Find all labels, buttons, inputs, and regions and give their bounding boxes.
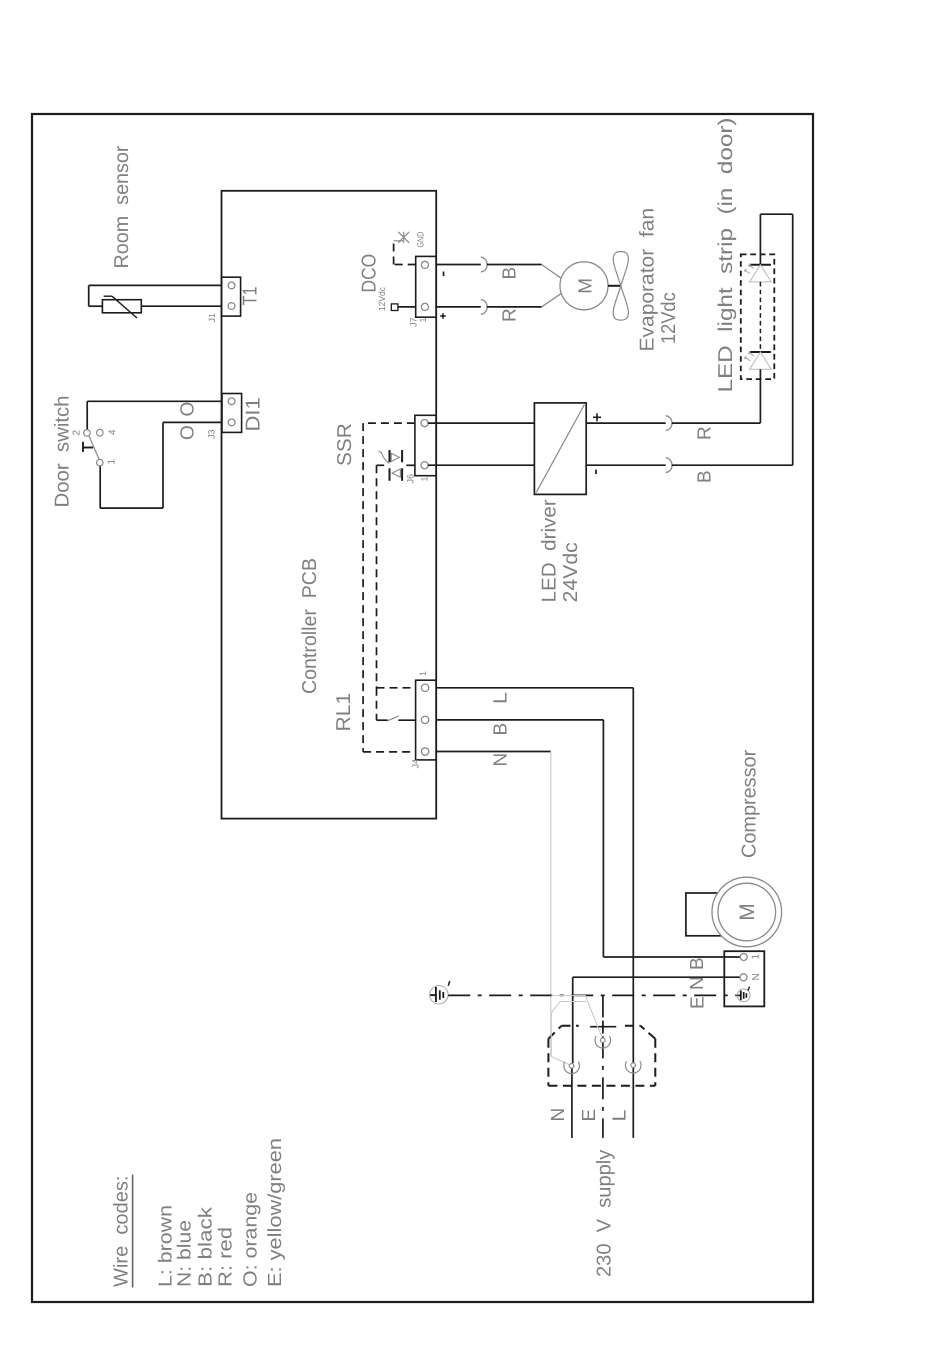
svg-text:M: M — [576, 278, 597, 294]
svg-text:E: yellow/green: E: yellow/green — [265, 1138, 286, 1287]
svg-text:B: B — [491, 723, 512, 736]
svg-text:J4: J4 — [410, 759, 420, 769]
svg-text:1: 1 — [420, 476, 430, 481]
svg-text:1: 1 — [418, 671, 428, 676]
svg-text:Door switch: Door switch — [52, 396, 74, 508]
svg-text:B: B — [500, 267, 521, 280]
svg-text:E: E — [688, 996, 709, 1009]
svg-text:1: 1 — [418, 317, 428, 322]
svg-text:24Vdc: 24Vdc — [560, 542, 582, 602]
svg-text:J3: J3 — [207, 429, 217, 439]
svg-text:RL1: RL1 — [333, 693, 355, 732]
svg-text:N: N — [751, 973, 762, 980]
svg-text:O: O — [178, 425, 199, 440]
svg-text:LED light strip (in door): LED light strip (in door) — [715, 118, 737, 393]
svg-text:L: L — [610, 1110, 631, 1122]
svg-text:2: 2 — [72, 430, 83, 436]
svg-text:N: blue: N: blue — [175, 1220, 196, 1287]
svg-text:12Vdc: 12Vdc — [377, 287, 387, 311]
svg-text:Room sensor: Room sensor — [111, 145, 133, 268]
svg-text:1: 1 — [107, 459, 118, 465]
svg-text:L: brown: L: brown — [156, 1205, 177, 1287]
svg-text:L: L — [491, 692, 512, 704]
svg-text:12Vdc: 12Vdc — [658, 292, 680, 344]
svg-text:4: 4 — [108, 429, 119, 435]
svg-text:M: M — [736, 903, 759, 921]
svg-text:B: B — [695, 470, 716, 483]
svg-text:SSR: SSR — [334, 423, 356, 466]
svg-text:Controller PCB: Controller PCB — [299, 558, 321, 694]
svg-text:J7: J7 — [408, 317, 418, 327]
svg-text:B: black: B: black — [196, 1206, 217, 1287]
svg-text:O: orange: O: orange — [241, 1192, 262, 1287]
svg-text:230 V supply: 230 V supply — [594, 1150, 616, 1277]
svg-text:N: N — [548, 1108, 569, 1122]
svg-text:E: E — [579, 1109, 600, 1122]
svg-text:J1: J1 — [207, 313, 217, 323]
svg-text:GND: GND — [416, 231, 426, 247]
svg-text:DI1: DI1 — [243, 397, 265, 431]
svg-text:R: R — [500, 308, 521, 322]
svg-text:R: R — [695, 426, 716, 440]
svg-text:LED driver: LED driver — [539, 499, 561, 603]
svg-text:O: O — [178, 402, 199, 417]
svg-text:R: red: R: red — [216, 1227, 237, 1287]
svg-text:T1: T1 — [240, 287, 262, 306]
svg-text:1: 1 — [751, 954, 762, 960]
svg-text:N: N — [687, 976, 708, 990]
svg-text:DCO: DCO — [359, 254, 381, 293]
svg-text:Compressor: Compressor — [739, 749, 761, 858]
svg-text:J6: J6 — [406, 474, 416, 484]
svg-text:Wire codes:: Wire codes: — [111, 1176, 133, 1288]
svg-text:N: N — [491, 753, 512, 767]
svg-text:Evaporator fan: Evaporator fan — [637, 208, 659, 352]
svg-text:B: B — [687, 957, 708, 970]
